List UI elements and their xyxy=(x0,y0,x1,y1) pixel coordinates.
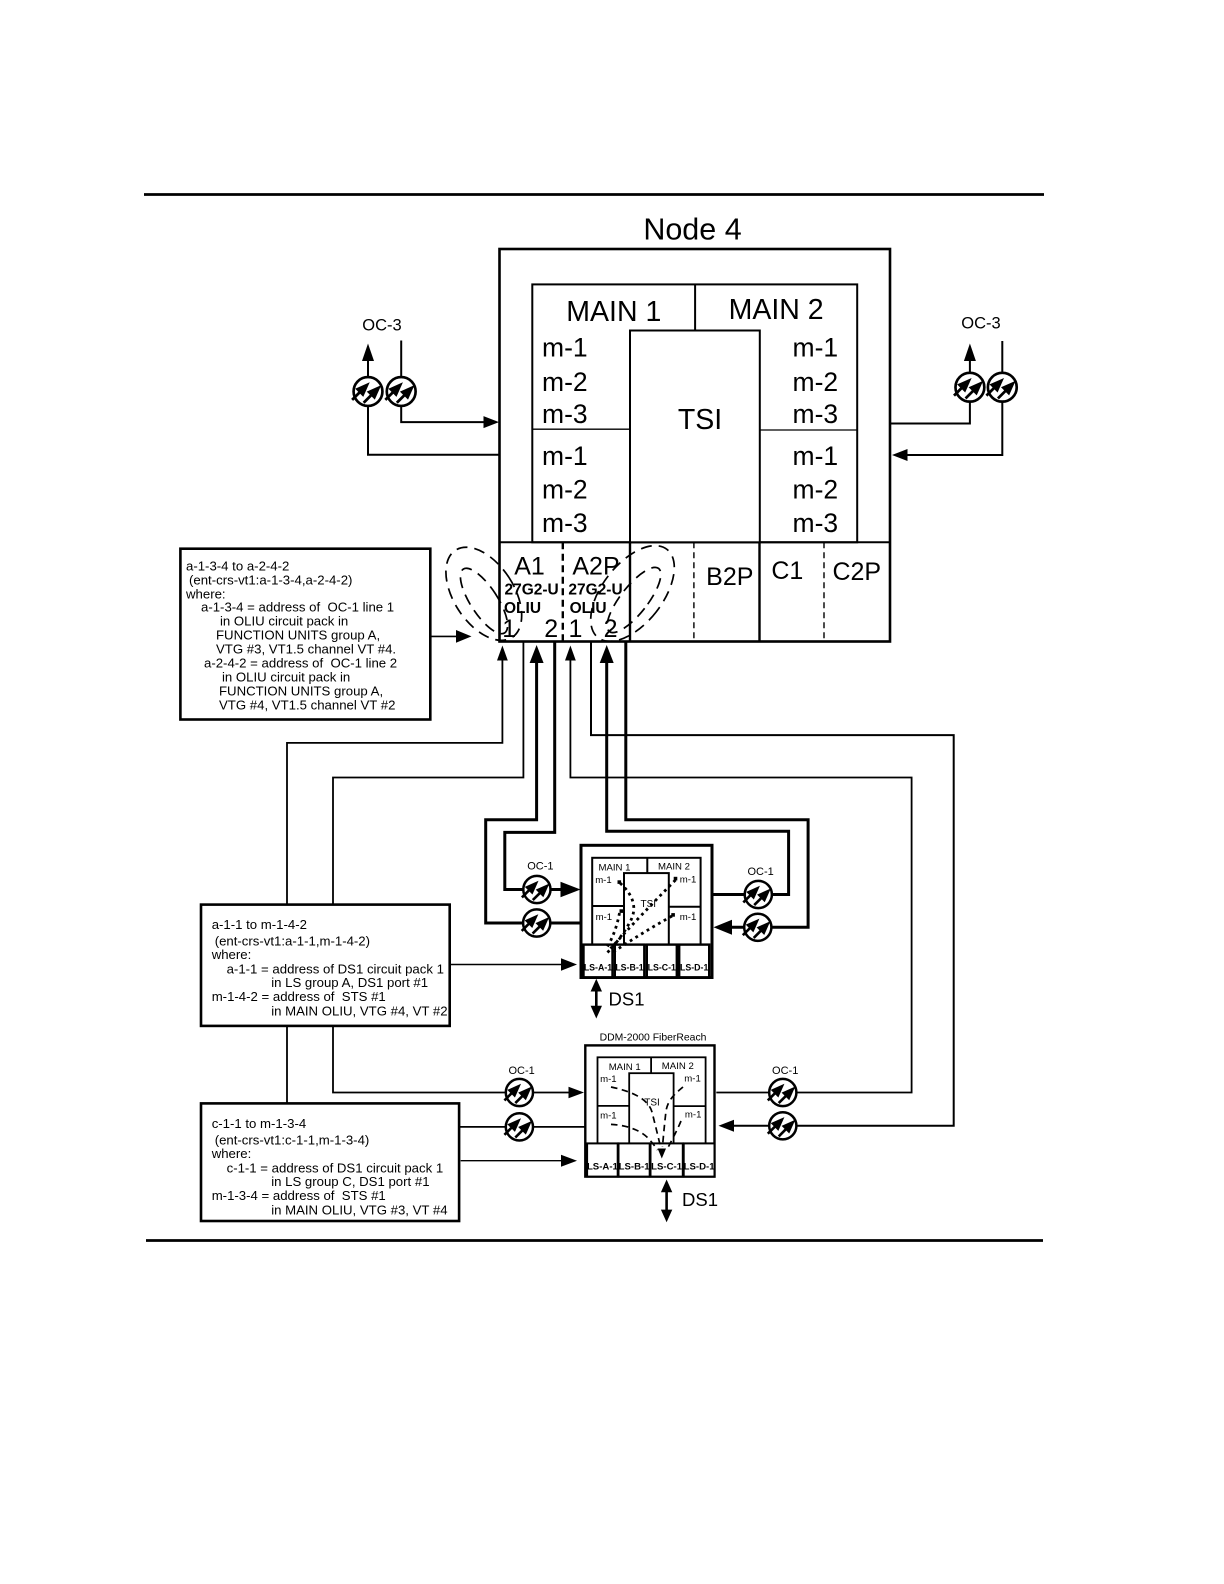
svg-text:MAIN 2: MAIN 2 xyxy=(729,294,824,326)
unit2 OC-1 connector lower-right xyxy=(764,1109,799,1144)
svg-text:1: 1 xyxy=(502,615,516,643)
unit2 inner box xyxy=(598,1057,706,1143)
svg-text:m-1: m-1 xyxy=(542,441,588,471)
unit1 DS1 double arrow xyxy=(595,988,598,1010)
svg-text:A2P: A2P xyxy=(572,553,619,581)
unit2 OC-1 connector upper-left xyxy=(501,1076,536,1111)
svg-text:MAIN 2: MAIN 2 xyxy=(658,862,690,873)
unit1 m divider right xyxy=(669,906,701,908)
svg-text:LS-C-1: LS-C-1 xyxy=(648,963,676,973)
OC-3 right fiber down line xyxy=(1001,341,1003,373)
svg-text:LS-A-1: LS-A-1 xyxy=(584,963,612,973)
svg-text:m-3: m-3 xyxy=(793,508,839,538)
unit2 OC-1 connector upper-right xyxy=(764,1076,799,1111)
cell divider A1|A2P dashed xyxy=(562,542,564,641)
wire A2P port1 receive (from unit2 upper-right) xyxy=(570,660,911,1093)
svg-text:m-1: m-1 xyxy=(595,875,612,886)
OC-3 right up-arrow wire xyxy=(969,361,971,374)
OC-3 connector left A xyxy=(348,374,385,411)
wire A1 port1 receive (from unit2 lower-left via behind boxes) xyxy=(287,660,586,1127)
svg-text:m-1: m-1 xyxy=(684,1074,701,1085)
main shelf inner box xyxy=(532,284,857,542)
unit2 dashed xconn from lower-right m-1 xyxy=(668,1121,681,1148)
description box 2 xyxy=(201,905,450,1026)
unit1 MAIN divider xyxy=(646,858,648,873)
svg-text:DS1: DS1 xyxy=(609,989,645,1010)
unit2 dashed xconn from upper-right m-1 xyxy=(663,1087,684,1147)
unit2 OC-1 connector lower-left xyxy=(501,1110,536,1145)
unit1 TSI box xyxy=(624,873,669,945)
m-3/m-1 divider left xyxy=(532,428,630,430)
svg-text:MAIN 2: MAIN 2 xyxy=(662,1061,694,1072)
unit1 OC-1 connector lower-right xyxy=(739,911,774,946)
description box 3 xyxy=(201,1103,459,1221)
dashed ellipse outer left xyxy=(430,534,537,654)
svg-text:LS-D-1: LS-D-1 xyxy=(680,963,708,973)
svg-text:m-2: m-2 xyxy=(793,367,839,397)
unit2 xconn arrowhead into LS-C-1 xyxy=(658,1149,666,1159)
unit2 LS-C-1 box xyxy=(651,1143,683,1176)
svg-text:OC-1: OC-1 xyxy=(527,861,553,873)
description box 1 xyxy=(180,549,430,720)
svg-text:m-2: m-2 xyxy=(793,475,839,505)
OC-3 left up-arrow wire xyxy=(367,361,369,378)
svg-text:LS-C-1: LS-C-1 xyxy=(651,1162,683,1173)
unit1 OC-1 connector upper-right xyxy=(739,878,774,913)
unit1 LS-D-1 box xyxy=(679,945,709,978)
svg-text:B2P: B2P xyxy=(706,563,753,591)
wire A2P port2 receive thick (from unit1 upper-right) xyxy=(607,663,789,895)
svg-text:TSI: TSI xyxy=(678,404,722,436)
dashed ellipse inner left xyxy=(452,562,516,640)
unit2 LS-B-1 box xyxy=(619,1143,650,1176)
unit2 DS1 double arrow xyxy=(665,1189,668,1213)
dashed ellipse outer right xyxy=(574,531,690,656)
unit2 TSI box xyxy=(629,1073,673,1143)
unit2 dashed xconn from upper-left m-1 xyxy=(611,1087,661,1147)
m-3/m-1 divider right xyxy=(760,429,857,431)
svg-text:A1: A1 xyxy=(514,553,545,581)
svg-text:m-1: m-1 xyxy=(793,332,839,362)
svg-text:2: 2 xyxy=(604,615,618,643)
svg-text:m-3: m-3 xyxy=(793,399,839,429)
wire A2P port1 transmit (to unit2 lower-right) xyxy=(591,642,954,1126)
unit1 LS-A-1 box xyxy=(584,945,613,978)
unit2 dashed xconn from lower-left m-1 xyxy=(611,1124,658,1150)
unit1 OC-1 connector lower-left xyxy=(518,906,553,941)
cell divider B2P|C1 solid xyxy=(758,542,760,641)
wire A1 port2 transmit thick (to unit1 upper-left) xyxy=(505,642,561,890)
svg-text:TSI: TSI xyxy=(644,1098,660,1109)
wire A1 port1 transmit (to unit2 upper-left) xyxy=(333,642,569,1093)
svg-text:MAIN 1: MAIN 1 xyxy=(609,1062,641,1073)
svg-text:OC-3: OC-3 xyxy=(362,317,401,335)
wire A1 port2 receive thick (from unit1 lower-left) xyxy=(486,663,581,923)
svg-text:LS-B-1: LS-B-1 xyxy=(615,963,643,973)
MAIN1/MAIN2 divider xyxy=(694,284,696,330)
svg-text:m-1: m-1 xyxy=(600,1110,617,1121)
node 4 shelf box xyxy=(500,249,891,642)
cells top line xyxy=(500,541,891,543)
cell divider B1|B2P dashed xyxy=(693,542,695,641)
unit1 dotted xconn from lower-left m-1 xyxy=(620,909,624,913)
wire node to right OC-3 connector xyxy=(890,401,970,423)
unit1 shelf box xyxy=(581,845,712,977)
top rule xyxy=(144,193,1044,196)
unit2 MAIN divider xyxy=(650,1057,652,1073)
bottom rule xyxy=(146,1239,1043,1242)
svg-text:m-1: m-1 xyxy=(600,1074,617,1085)
cell divider A2P|B solid xyxy=(629,542,631,641)
svg-text:m-1: m-1 xyxy=(793,441,839,471)
unit1 OC-1 connector upper-left xyxy=(518,873,553,908)
svg-text:m-1: m-1 xyxy=(542,332,588,362)
svg-text:MAIN 1: MAIN 1 xyxy=(599,863,631,874)
description box 2 arrow xyxy=(450,964,562,966)
svg-text:TSI: TSI xyxy=(641,899,657,910)
unit2 m divider right xyxy=(674,1105,706,1107)
svg-text:m-3: m-3 xyxy=(542,399,588,429)
svg-text:OC-1: OC-1 xyxy=(772,1065,798,1077)
unit2 LS-D-1 box xyxy=(684,1143,715,1176)
svg-text:LS-D-1: LS-D-1 xyxy=(684,1162,716,1173)
svg-text:DDM-2000 FiberReach: DDM-2000 FiberReach xyxy=(600,1033,707,1044)
svg-text:1: 1 xyxy=(569,615,583,643)
wire left OC-3 connector into node xyxy=(401,406,484,423)
unit1 dotted xconn from lower-right m-1 xyxy=(671,913,675,917)
svg-text:C2P: C2P xyxy=(832,558,881,586)
unit1 dotted xconn from upper-left m-1 xyxy=(618,880,622,884)
svg-text:OC-1: OC-1 xyxy=(747,866,773,878)
OC-3 left fiber down line xyxy=(400,341,402,378)
unit2 LS-A-1 box xyxy=(587,1143,618,1176)
description box 1 arrow xyxy=(430,635,456,637)
unit1 m divider left xyxy=(592,905,624,907)
cell divider C1|C2P dashed xyxy=(823,542,825,641)
unit1 LS-B-1 box xyxy=(615,945,645,978)
TSI box xyxy=(630,331,760,543)
svg-text:2: 2 xyxy=(544,615,558,643)
svg-text:LS-A-1: LS-A-1 xyxy=(587,1162,619,1173)
OC-3 connector right B xyxy=(982,370,1019,407)
svg-text:m-1: m-1 xyxy=(680,875,697,886)
svg-text:DS1: DS1 xyxy=(682,1189,718,1210)
svg-text:OC-1: OC-1 xyxy=(508,1065,534,1077)
svg-text:m-1: m-1 xyxy=(680,912,697,923)
svg-text:m-1: m-1 xyxy=(596,912,613,923)
svg-text:Node 4: Node 4 xyxy=(643,213,741,247)
svg-text:C1: C1 xyxy=(771,557,803,585)
svg-text:m-1: m-1 xyxy=(685,1110,702,1121)
dashed ellipse inner right xyxy=(599,560,670,640)
unit1 inner box xyxy=(592,858,700,945)
svg-text:MAIN 1: MAIN 1 xyxy=(566,296,661,328)
OC-3 connector right A xyxy=(950,370,987,407)
unit1 LS-C-1 box xyxy=(647,945,677,978)
description box 3 arrow xyxy=(461,1160,562,1162)
unit2 m divider left xyxy=(598,1105,630,1107)
svg-text:m-2: m-2 xyxy=(542,367,588,397)
svg-text:m-2: m-2 xyxy=(542,475,588,505)
svg-text:OC-3: OC-3 xyxy=(961,315,1000,333)
svg-text:m-3: m-3 xyxy=(542,508,588,538)
unit2 shelf box xyxy=(585,1045,714,1176)
OC-3 connector left B xyxy=(381,374,418,411)
wire A2P port2 transmit thick (to unit1 lower-right) xyxy=(626,642,808,928)
wire right OC-3 connector into node xyxy=(907,401,1003,455)
wire node to left OC-3 connector xyxy=(368,406,500,455)
unit1 dotted xconn from upper-right m-1 xyxy=(674,877,678,881)
svg-text:LS-B-1: LS-B-1 xyxy=(619,1162,651,1173)
